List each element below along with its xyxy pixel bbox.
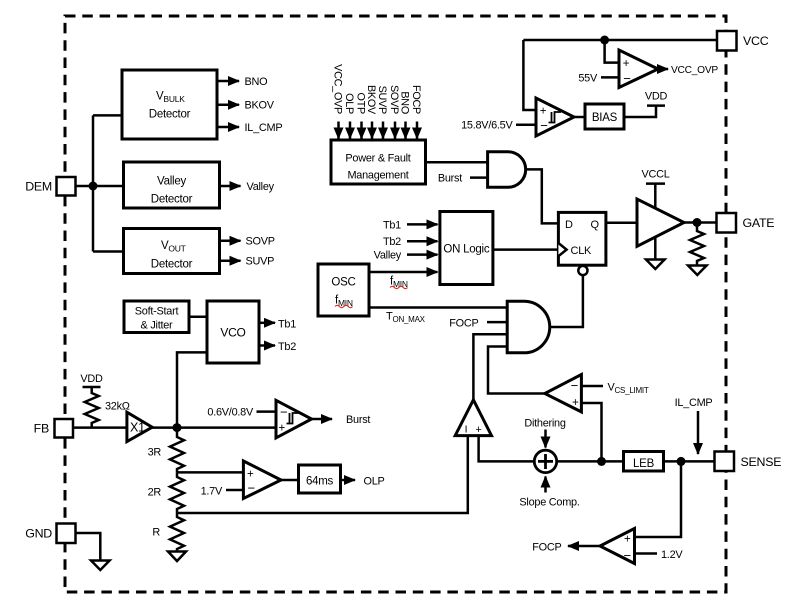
wire ON Logic to CLK — [493, 248, 558, 251]
wire VCC rail — [523, 39, 717, 42]
buffer X1 — [127, 412, 152, 441]
comparator Burst (hysteresis) — [276, 400, 312, 438]
svg-text:SENSE: SENSE — [741, 455, 782, 469]
svg-text:+: + — [572, 397, 579, 409]
svg-text:+: + — [624, 534, 631, 546]
output FOCP — [532, 542, 600, 554]
svg-text:SUVP: SUVP — [246, 256, 275, 268]
wire gate driver to GATE pin — [684, 221, 717, 224]
wire sum to LEB — [557, 460, 624, 463]
node GATE junction — [693, 218, 702, 227]
label 0.6V/0.8V with wire — [207, 407, 276, 419]
svg-text:Soft-Start: Soft-Start — [135, 306, 179, 318]
svg-text:Dithering: Dithering — [524, 418, 566, 430]
fault input BKOV — [365, 85, 377, 139]
wire Q to gate driver — [606, 222, 637, 225]
fault input SOVP — [388, 85, 400, 139]
svg-text:ON Logic: ON Logic — [443, 244, 489, 256]
svg-text:IL_CMP: IL_CMP — [245, 122, 283, 134]
svg-text:BKOV: BKOV — [365, 85, 377, 115]
VCCL supply — [641, 169, 669, 210]
block OSC — [318, 264, 369, 316]
svg-text:LEB: LEB — [633, 458, 655, 470]
svg-text:−: − — [280, 405, 287, 420]
wire gate driver to ground — [654, 237, 657, 260]
comparator current I — [455, 400, 491, 436]
ground below gate resistor — [688, 266, 707, 276]
wire X1 output rail to Burst comparator — [152, 426, 276, 429]
svg-text:Power & Fault: Power & Fault — [345, 153, 410, 165]
svg-text:DEM: DEM — [25, 180, 52, 194]
svg-text:Detector: Detector — [151, 194, 193, 206]
svg-text:FOCP: FOCP — [532, 542, 561, 554]
node DEM junction — [89, 182, 98, 191]
ground below GND pin — [91, 561, 110, 571]
svg-text:1.7V: 1.7V — [201, 486, 223, 498]
output BKOV — [217, 100, 275, 112]
svg-text:SUVP: SUVP — [376, 86, 388, 114]
svg-text:R: R — [152, 527, 160, 539]
svg-text:GATE: GATE — [743, 216, 775, 230]
output SOVP — [220, 236, 275, 248]
svg-text:+: + — [475, 424, 481, 436]
buffer gate driver — [637, 199, 684, 246]
output Tb2 — [259, 341, 296, 353]
label 55V with wire — [578, 73, 619, 85]
svg-text:64ms: 64ms — [306, 476, 334, 488]
svg-text:OTP: OTP — [355, 93, 367, 114]
label 15.8V/6.5V with wire — [461, 120, 536, 132]
svg-text:Tb1: Tb1 — [383, 219, 401, 231]
wire OSC fMIN to ON Logic — [369, 272, 438, 289]
wire OR gate output to flipflop bubble — [550, 275, 583, 327]
block 64ms — [299, 465, 341, 493]
fault input BNO — [399, 91, 411, 138]
svg-text:VDD: VDD — [80, 373, 103, 385]
node FB divider junction — [173, 423, 182, 432]
svg-text:−: − — [623, 548, 630, 563]
svg-text:OLP: OLP — [364, 476, 385, 488]
block Power and Fault Management — [331, 140, 426, 184]
svg-text:& Jitter: & Jitter — [141, 320, 174, 332]
svg-text:2R: 2R — [148, 487, 162, 499]
svg-text:BKOV: BKOV — [245, 100, 275, 112]
svg-text:VCO: VCO — [220, 326, 245, 340]
VDD supply above 32k resistor — [80, 373, 103, 387]
svg-text:SOVP: SOVP — [388, 85, 400, 114]
wire SENSE node to FOCP comparator — [635, 461, 682, 537]
svg-text:Management: Management — [347, 170, 408, 182]
svg-text:Burst: Burst — [346, 414, 370, 426]
svg-text:SOVP: SOVP — [246, 236, 275, 248]
svg-text:Detector: Detector — [149, 109, 191, 121]
output Tb1 — [259, 318, 296, 330]
wire AND gate to flipflop D input — [526, 169, 559, 223]
fault input OLP — [343, 93, 355, 138]
block Soft-Start & Jitter — [124, 301, 189, 333]
wire divider tap2 to I comparator — [177, 436, 468, 513]
output SUVP — [220, 256, 275, 268]
svg-text:VCC_OVP: VCC_OVP — [671, 65, 718, 76]
svg-text:X1: X1 — [130, 421, 145, 435]
node VCC junction — [600, 36, 609, 45]
fault input VCC_OVP — [332, 64, 344, 138]
svg-text:1.2V: 1.2V — [661, 549, 683, 561]
resistor 2R — [148, 472, 184, 513]
svg-text:3R: 3R — [148, 447, 162, 459]
svg-text:−: − — [571, 378, 578, 393]
wire sum to I comparator plus input — [479, 436, 535, 462]
wire divider tap1 to OLP comparator — [177, 471, 243, 474]
resistor R — [152, 513, 184, 552]
comparator VCC_OVP — [619, 50, 658, 88]
pin FB — [34, 419, 73, 438]
output OLP — [341, 476, 385, 488]
block Valley detector — [124, 162, 220, 208]
comparator OLP — [243, 461, 281, 499]
fault input SUVP — [376, 86, 388, 139]
comparator VCS_LIMIT — [545, 375, 582, 412]
svg-text:−: − — [248, 481, 255, 496]
wire comparator to BIAS — [574, 116, 585, 119]
comparator BIAS enable (hysteresis) — [536, 98, 574, 136]
output BNO — [217, 76, 267, 88]
svg-text:FOCP: FOCP — [449, 317, 478, 329]
node VCS tap junction — [597, 457, 606, 466]
IC boundary dashed border — [65, 16, 726, 592]
svg-text:−: − — [540, 118, 547, 133]
svg-text:FOCP: FOCP — [410, 85, 422, 114]
pin GND — [25, 524, 75, 544]
svg-text:Valley: Valley — [247, 181, 275, 193]
svg-text:OSC: OSC — [331, 277, 355, 289]
wire I comparator output to OR gate — [473, 334, 507, 400]
block ON Logic — [440, 212, 493, 285]
label 1.7V with wire — [201, 486, 244, 498]
svg-text:+: + — [623, 58, 630, 70]
OR gate FOCP logic — [507, 301, 550, 353]
svg-text:0.6V/0.8V: 0.6V/0.8V — [207, 407, 254, 419]
svg-text:Slope Comp.: Slope Comp. — [519, 497, 579, 509]
svg-text:VCCL: VCCL — [641, 169, 669, 181]
label Burst with wire into AND gate — [438, 173, 488, 185]
svg-text:BNO: BNO — [245, 76, 268, 88]
input Tb1 to ON Logic — [383, 219, 438, 231]
wire FB to X1 — [73, 426, 127, 429]
svg-text:FB: FB — [34, 422, 49, 436]
svg-text:Valley: Valley — [374, 250, 402, 262]
wire Power Fault to AND gate — [426, 161, 488, 164]
wire OLP comparator to 64ms — [281, 479, 299, 482]
wire BIAS to VDD — [624, 106, 656, 117]
svg-text:GND: GND — [25, 527, 52, 541]
ground below divider — [168, 552, 186, 562]
svg-text:Tb2: Tb2 — [278, 341, 296, 353]
label Dithering with arrow — [524, 418, 566, 448]
svg-text:Q: Q — [591, 219, 600, 231]
svg-text:VDD: VDD — [645, 91, 668, 103]
label Slope Comp with arrow — [519, 477, 579, 509]
wire VCC to 55V comparator plus input — [605, 40, 619, 63]
resistor 32kOhm — [85, 387, 130, 428]
fault input OTP — [355, 93, 367, 139]
label IL_CMP with arrow — [675, 397, 713, 454]
pin DEM — [25, 177, 75, 196]
input Valley to ON Logic — [374, 250, 438, 262]
input Tb2 to ON Logic — [383, 236, 438, 248]
label 1.2V with wire — [635, 549, 684, 561]
output IL_CMP — [217, 122, 282, 134]
svg-text:I: I — [465, 424, 468, 436]
svg-text:−: − — [623, 71, 630, 86]
AND gate burst control — [488, 152, 526, 187]
block VBULK detector — [122, 70, 217, 139]
comparator FOCP — [600, 529, 635, 564]
output Valley — [220, 181, 275, 193]
label FOCP with wire into OR gate — [449, 317, 507, 329]
svg-text:+: + — [540, 106, 547, 118]
svg-text:OLP: OLP — [343, 93, 355, 114]
resistor gate pulldown — [690, 223, 704, 266]
svg-text:TON_MAX: TON_MAX — [386, 311, 426, 325]
svg-text:Valley: Valley — [157, 176, 186, 188]
svg-text:15.8V/6.5V: 15.8V/6.5V — [461, 120, 513, 132]
svg-text:D: D — [565, 219, 573, 231]
summing junction — [534, 450, 556, 472]
wire VCS plus input to sense node — [581, 403, 601, 461]
wire VCO input from FB node — [177, 352, 207, 427]
svg-text:Tb2: Tb2 — [383, 236, 401, 248]
wire soft-start to VCO — [189, 316, 207, 319]
wire OSC TONMAX to OR gate — [369, 308, 507, 325]
svg-text:VCS_LIMIT: VCS_LIMIT — [608, 382, 649, 396]
svg-text:55V: 55V — [578, 73, 598, 85]
svg-text:Tb1: Tb1 — [278, 318, 296, 330]
pin SENSE — [715, 452, 782, 472]
resistor 3R — [148, 428, 184, 473]
svg-text:VCC_OVP: VCC_OVP — [332, 64, 344, 114]
svg-text:Burst: Burst — [438, 173, 462, 185]
block VOUT detector — [124, 229, 220, 274]
wire GND pin to ground — [76, 533, 100, 560]
svg-text:CLK: CLK — [571, 245, 593, 257]
block VCO — [207, 301, 259, 363]
svg-text:Detector: Detector — [151, 259, 193, 271]
output Burst — [312, 414, 371, 426]
svg-text:IL_CMP: IL_CMP — [675, 397, 713, 409]
wire DEM to detectors — [76, 115, 124, 251]
svg-text:BNO: BNO — [399, 91, 411, 114]
svg-text:VCC: VCC — [743, 34, 769, 48]
wire LEB to SENSE pin — [664, 460, 715, 463]
output VCC_OVP — [658, 65, 718, 76]
svg-text:+: + — [279, 423, 286, 435]
pin GATE — [717, 213, 775, 233]
fault input FOCP — [410, 85, 422, 139]
wire VCS comparator output to OR gate — [488, 347, 545, 394]
svg-text:+: + — [247, 469, 254, 481]
node SENSE junction — [677, 457, 686, 466]
block BIAS — [585, 104, 624, 129]
wire VCC to hysteresis comparator plus input — [523, 40, 536, 110]
pin VCC — [717, 31, 769, 51]
block LEB — [624, 452, 664, 472]
ground below gate driver — [646, 260, 665, 270]
label VCS_LIMIT with wire — [581, 382, 648, 396]
svg-text:BIAS: BIAS — [592, 112, 618, 124]
flipflop DFF — [558, 212, 606, 275]
VDD supply near BIAS — [645, 91, 668, 106]
